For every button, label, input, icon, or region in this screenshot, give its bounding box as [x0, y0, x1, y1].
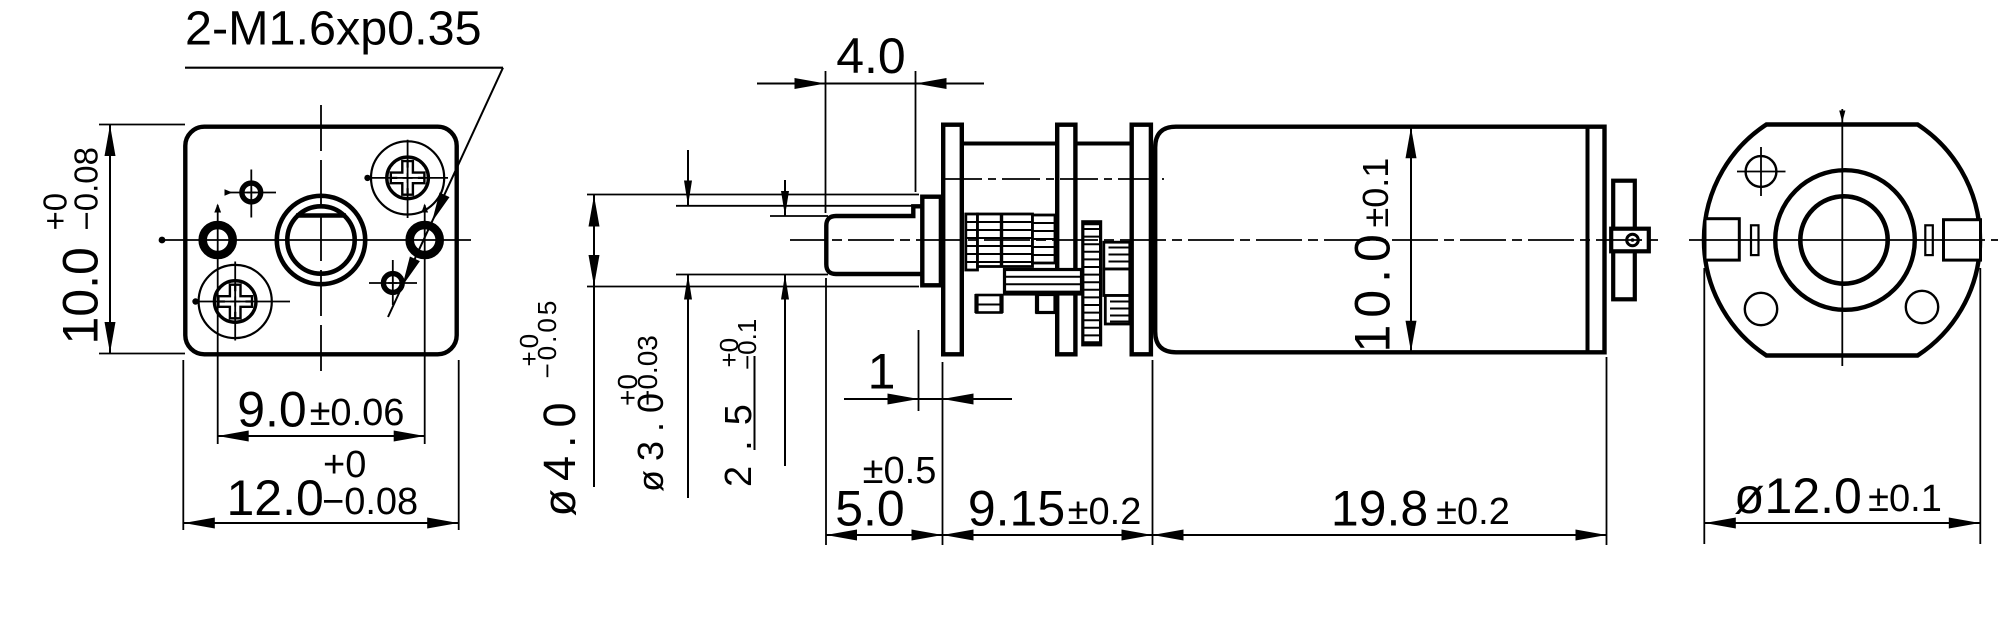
output shaft with flat [826, 206, 922, 274]
svg-text:4.0: 4.0 [836, 28, 906, 84]
gearbox housing top rails [962, 142, 1057, 146]
svg-text:9.15: 9.15 [968, 481, 1065, 537]
dim 5.0 ±0.5 (shaft protrusion) [825, 278, 827, 545]
dim 10.0 ±0.1 (motor diameter side view) [1410, 127, 1412, 353]
left view vertical centerline [320, 105, 322, 374]
layshaft centerline [944, 178, 1164, 180]
end view screw hole with cross [1746, 156, 1777, 187]
svg-text:9.0: 9.0 [237, 382, 307, 438]
svg-text:±0.2: ±0.2 [1068, 491, 1142, 533]
gearbox rear plate P3 [1132, 125, 1151, 355]
dim 4.0 (shaft flat length) [825, 71, 827, 213]
dim ø12.0 ±0.1 (motor diameter end view) [1703, 268, 1705, 544]
shaft flat chord [296, 213, 346, 218]
terminal eyelet [1627, 234, 1639, 246]
svg-text:±0.1: ±0.1 [1868, 478, 1942, 520]
motor end cap seam [1586, 127, 1590, 353]
screw head bottom-left [199, 265, 272, 338]
motor end view outline (circle with flats) [1704, 125, 1980, 356]
dim ø4.0 +0 -0.05 (boss diameter) [587, 194, 919, 196]
output gear hub / carrier shaft [1005, 270, 1082, 295]
dim ø3.0 +0 -0.03 (shaft diameter) [676, 205, 913, 207]
end view left slot [1751, 225, 1759, 255]
left view horizontal centerline [162, 239, 471, 241]
end view left terminal [1705, 219, 1739, 260]
pilot hole bottom-right [383, 274, 402, 293]
dim 12.0 +0 -0.08 (left view width) [182, 360, 184, 530]
M1.6 threaded hole right [410, 225, 440, 255]
dim 1 (boss length) [918, 330, 920, 411]
M1.6 threaded hole left [203, 225, 233, 255]
end view bearing boss circle [1775, 170, 1915, 310]
svg-text:2-M1.6xp0.35: 2-M1.6xp0.35 [185, 2, 482, 56]
svg-text:±0.5: ±0.5 [863, 450, 937, 492]
gear F (motor pinion bottom gear) [1105, 296, 1130, 325]
svg-text:10.0: 10.0 [1345, 227, 1401, 352]
bottom pinion gear [977, 295, 1002, 313]
main axis centerline [790, 239, 1661, 241]
dim 2.5 +0 -0.1 (shaft flat height) [770, 215, 828, 217]
dim 9.0 ±0.06 (hole spacing) [218, 435, 425, 437]
pilot hole top-left [242, 183, 261, 202]
svg-text:−0.03: −0.03 [632, 335, 663, 406]
screw head top-right [371, 141, 444, 214]
svg-text:±0.1: ±0.1 [1355, 158, 1396, 228]
output shaft circle [287, 206, 354, 273]
gear D (large intermediate gear) [1083, 222, 1101, 345]
svg-text:±0.06: ±0.06 [310, 392, 405, 434]
gearbox front plate P1 [943, 125, 962, 355]
svg-text:+0: +0 [323, 444, 366, 486]
end view lower-left hole [1745, 293, 1777, 325]
gear G3 (second stage wheel) [1033, 215, 1056, 263]
svg-text:ø4.0: ø4.0 [534, 394, 585, 516]
gearbox middle plate P2 [1057, 125, 1075, 355]
svg-text:−0.1: −0.1 [732, 319, 762, 370]
end view shaft bore circle [1800, 196, 1887, 283]
motor terminal tab [1611, 229, 1649, 252]
end view vertical centerline [1841, 109, 1843, 366]
dim 19.8 ±0.2 (motor length) [1606, 357, 1608, 545]
shaft bearing boss [922, 197, 941, 286]
dim 10.0 +0 -0.08 (left view height) [99, 124, 185, 126]
dim 9.15 ±0.2 (gearbox length) [1152, 360, 1154, 545]
lower shaft nub [1037, 295, 1056, 313]
end view lower-right hole [1906, 291, 1938, 323]
end view horizontal centerline [1689, 239, 1985, 241]
motor terminal plate (rear) [1613, 181, 1635, 300]
gear E (motor pinion top gear) [1104, 242, 1130, 269]
svg-text:−0.08: −0.08 [68, 147, 105, 231]
svg-text:12.0: 12.0 [227, 470, 324, 526]
end view right slot [1925, 225, 1933, 255]
gear G1 (first stage pinion gear) [966, 214, 978, 270]
svg-text:10.0: 10.0 [53, 247, 109, 344]
gear G2 (first stage wheel) [978, 214, 1033, 267]
end view right terminal [1944, 220, 1981, 260]
output shaft bearing circle [277, 196, 365, 284]
svg-text:ø12.0: ø12.0 [1734, 468, 1862, 524]
svg-text:2.5: 2.5 [718, 389, 760, 487]
svg-text:−0.05: −0.05 [532, 298, 562, 379]
svg-text:1: 1 [868, 344, 896, 400]
gearbox face plate outline [185, 127, 456, 355]
leader line from thread label [388, 68, 503, 317]
svg-text:±0.2: ±0.2 [1436, 491, 1510, 533]
svg-text:−0.08: −0.08 [322, 481, 418, 523]
svg-text:19.8: 19.8 [1331, 481, 1428, 537]
motor can body (side view) [1155, 127, 1604, 353]
motor pinion spacer [1104, 269, 1130, 296]
